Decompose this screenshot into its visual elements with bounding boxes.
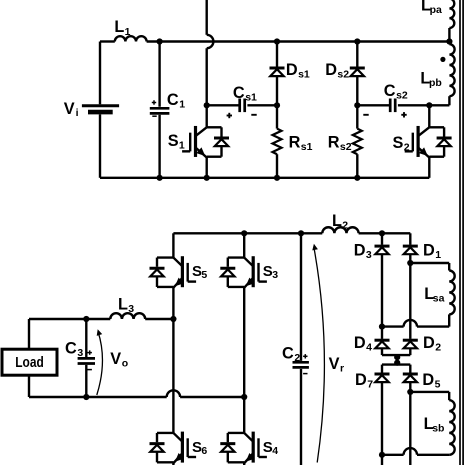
svg-text:D: D — [355, 371, 367, 389]
svg-text:5: 5 — [201, 269, 207, 281]
svg-text:1: 1 — [179, 140, 185, 152]
svg-text:i: i — [76, 107, 79, 119]
svg-text:6: 6 — [201, 445, 207, 457]
svg-text:D: D — [325, 61, 337, 79]
svg-text:1: 1 — [435, 249, 441, 261]
svg-text:C: C — [282, 345, 294, 363]
svg-text:s1: s1 — [298, 69, 310, 81]
svg-text:C: C — [384, 82, 396, 100]
svg-text:3: 3 — [77, 347, 83, 359]
svg-text:C: C — [65, 340, 77, 358]
svg-text:S: S — [168, 132, 179, 150]
svg-text:V: V — [110, 350, 121, 368]
svg-text:2: 2 — [294, 352, 300, 364]
svg-text:s1: s1 — [245, 92, 257, 104]
svg-text:3: 3 — [366, 249, 372, 261]
svg-text:2: 2 — [435, 342, 441, 354]
svg-text:2: 2 — [404, 142, 410, 154]
svg-text:D: D — [354, 334, 366, 352]
svg-text:L: L — [118, 296, 128, 314]
svg-text:V: V — [64, 100, 75, 118]
svg-text:o: o — [122, 357, 128, 369]
svg-text:D: D — [354, 242, 366, 260]
svg-text:C: C — [167, 91, 179, 109]
svg-text:7: 7 — [367, 378, 373, 390]
svg-text:s1: s1 — [301, 141, 313, 153]
svg-text:3: 3 — [128, 303, 134, 315]
svg-text:3: 3 — [272, 269, 278, 281]
svg-text:pa: pa — [430, 4, 442, 16]
svg-text:r: r — [340, 362, 344, 374]
svg-text:pb: pb — [429, 77, 442, 89]
svg-text:1: 1 — [179, 98, 185, 110]
svg-text:R: R — [289, 134, 301, 152]
svg-text:1: 1 — [125, 26, 131, 38]
svg-text:D: D — [423, 334, 435, 352]
svg-text:sa: sa — [433, 292, 445, 304]
svg-text:sb: sb — [432, 422, 444, 434]
svg-text:s2: s2 — [340, 141, 352, 153]
svg-text:L: L — [332, 212, 342, 230]
svg-text:4: 4 — [272, 445, 278, 457]
svg-text:V: V — [329, 355, 340, 373]
svg-text:D: D — [422, 371, 434, 389]
svg-text:L: L — [114, 18, 124, 36]
svg-text:4: 4 — [366, 342, 372, 354]
svg-text:Load: Load — [15, 355, 44, 371]
svg-text:2: 2 — [342, 219, 348, 231]
svg-text:D: D — [423, 242, 435, 260]
svg-text:s2: s2 — [396, 90, 408, 102]
svg-text:D: D — [286, 61, 298, 79]
svg-text:C: C — [233, 84, 245, 102]
svg-text:5: 5 — [435, 378, 441, 390]
svg-text:s2: s2 — [337, 69, 349, 81]
svg-text:S: S — [393, 134, 404, 152]
svg-text:R: R — [328, 134, 340, 152]
